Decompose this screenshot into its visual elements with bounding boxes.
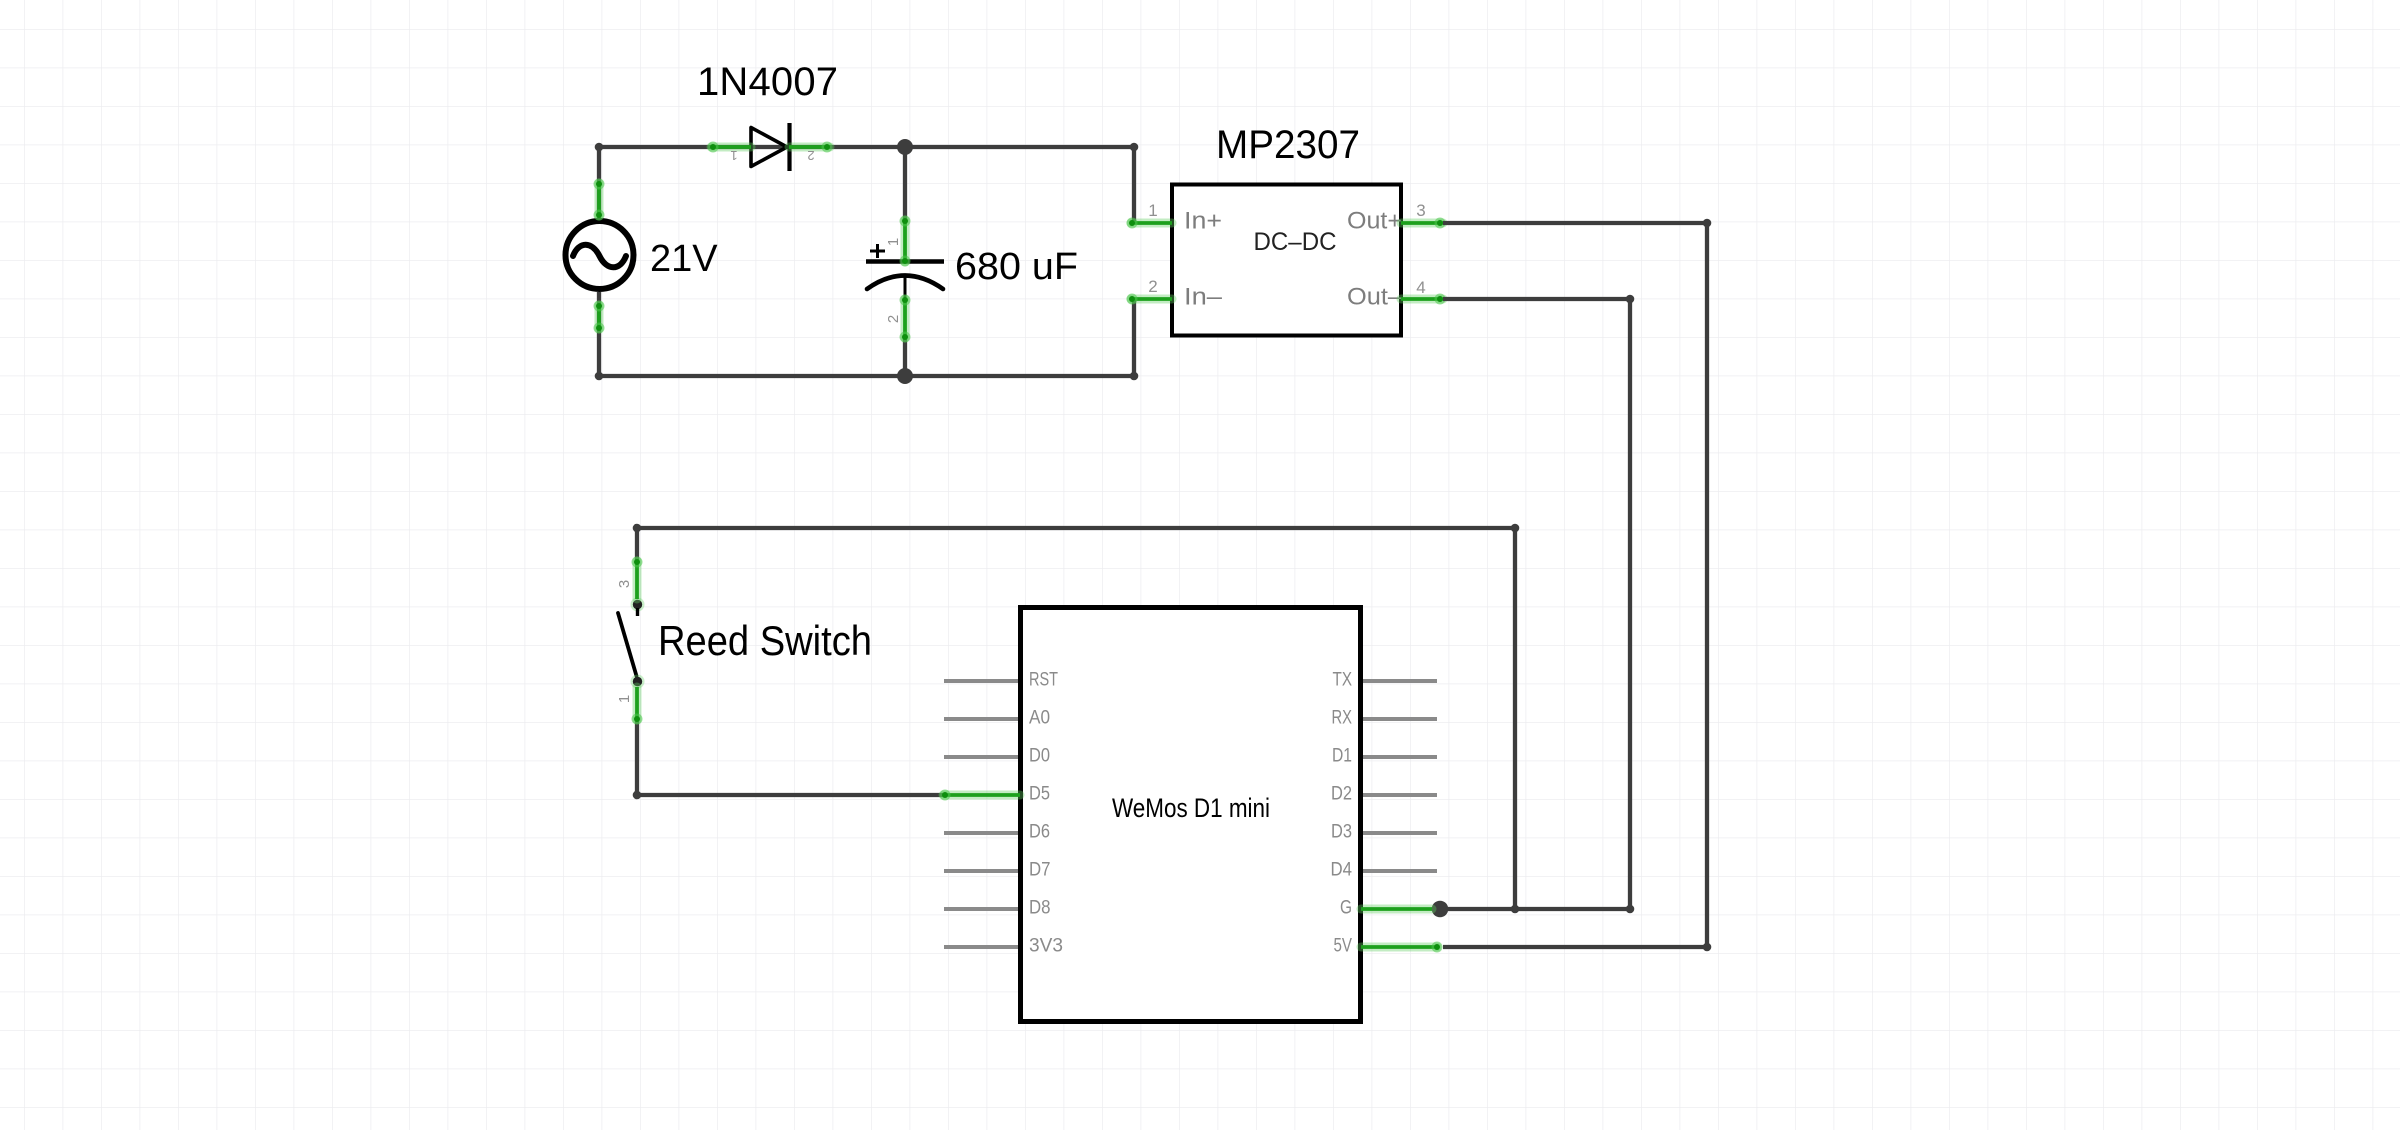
capacitor C1 (polarized 680 uF) [866, 244, 944, 299]
pin A0 stub [944, 717, 1018, 721]
pin 5V stub (green, connected) [1361, 942, 1443, 953]
pin D4 stub [1363, 869, 1437, 873]
pin label A0 [1029, 707, 1050, 729]
pin label Out+ [1347, 208, 1402, 235]
wire source bottom vertical [595, 292, 604, 380]
wire capacitor bottom vertical [903, 336, 907, 376]
wire capacitor top vertical [903, 147, 907, 222]
pin RX stub [1363, 717, 1437, 721]
pin D8 stub [944, 907, 1018, 911]
pin TX stub [1363, 679, 1437, 683]
svg-text:In+: In+ [1184, 208, 1222, 235]
pin label 3V3 [1029, 935, 1063, 957]
pin number 2 of C1 [885, 315, 902, 323]
wire from Out+ right then down to 5V [1443, 219, 1711, 952]
pin label D3 [1331, 821, 1352, 843]
pin label D4 [1331, 859, 1353, 881]
svg-text:MP2307: MP2307 [1216, 123, 1360, 167]
svg-text:1: 1 [885, 238, 902, 246]
pin 1 of D1 (anode, green) [708, 142, 752, 153]
part label Reed Switch [658, 617, 872, 664]
wire top rail horizontal [599, 145, 1134, 149]
pin label D6 [1029, 821, 1050, 843]
pin label D2 [1331, 783, 1352, 805]
svg-text:Out–: Out– [1347, 284, 1403, 311]
dc-dc module U1 MP2307 box [1172, 185, 1401, 336]
pin label RX [1332, 707, 1353, 729]
part label 1N4007 [697, 60, 838, 104]
svg-text:1: 1 [616, 695, 633, 703]
pin label RST [1029, 669, 1058, 691]
pin 1 In+ stub (green) [1127, 218, 1173, 229]
svg-text:G: G [1340, 897, 1352, 919]
wire from Out- right then down to G [1443, 295, 1634, 914]
svg-text:TX: TX [1333, 669, 1353, 691]
pin label D0 [1029, 745, 1050, 767]
svg-text:4: 4 [1416, 278, 1425, 297]
pin label In- [1184, 284, 1223, 311]
svg-text:5V: 5V [1334, 935, 1353, 957]
svg-text:3: 3 [1416, 201, 1425, 220]
svg-text:In–: In– [1184, 284, 1223, 311]
pin label D5 [1029, 783, 1050, 805]
pin number 2 of U1 [1148, 277, 1157, 296]
pin label 5V [1334, 935, 1353, 957]
pin 2 In- stub (green) [1127, 294, 1173, 305]
pin label Out- [1347, 284, 1403, 311]
svg-text:RX: RX [1332, 707, 1353, 729]
svg-text:Out+: Out+ [1347, 208, 1402, 235]
node junction at G (1440,909) [1432, 901, 1449, 918]
pin number 2 of D1 [807, 148, 814, 163]
wire top-left vertical from source to top rail [595, 143, 604, 219]
svg-text:D3: D3 [1331, 821, 1352, 843]
pin number 1 of D1 [730, 148, 737, 163]
pin number 1 of C1 [885, 238, 902, 246]
pin 1 of S1 (green) [632, 687, 643, 725]
pin label G [1340, 897, 1352, 919]
pin RST stub [944, 679, 1018, 683]
svg-text:1N4007: 1N4007 [697, 60, 838, 104]
value label 680 uF [955, 246, 1078, 288]
pin 1 of C1 (green) [900, 216, 911, 267]
pin D2 stub [1363, 793, 1437, 797]
wire right vertical up to In- [1130, 299, 1139, 380]
svg-text:D7: D7 [1029, 859, 1051, 881]
wire reed switch bottom to D5 [633, 720, 943, 799]
svg-text:DC–DC: DC–DC [1254, 228, 1337, 256]
svg-text:3: 3 [616, 580, 633, 588]
svg-text:RST: RST [1029, 669, 1058, 691]
pin 4 Out- stub (green) [1401, 294, 1446, 305]
pin number 4 of U1 [1416, 278, 1425, 297]
reed switch S1 [618, 598, 645, 689]
svg-text:D0: D0 [1029, 745, 1050, 767]
svg-text:D1: D1 [1332, 745, 1352, 767]
pin 2 of D1 (cathode, green) [789, 142, 833, 153]
pin D5 stub (green, connected) [940, 790, 1021, 801]
pin 1 of V1 (bottom, green) [594, 301, 605, 334]
pin 2 of C1 (green) [900, 295, 911, 343]
svg-text:1: 1 [730, 148, 737, 163]
svg-text:Reed Switch: Reed Switch [658, 617, 872, 664]
svg-text:A0: A0 [1029, 707, 1050, 729]
svg-text:D6: D6 [1029, 821, 1050, 843]
microcontroller U2 WeMos D1 mini box [1021, 608, 1361, 1022]
pin number 1 of U1 [1148, 201, 1157, 220]
pin D3 stub [1363, 831, 1437, 835]
pin D6 stub [944, 831, 1018, 835]
pin label TX [1333, 669, 1353, 691]
ac source V1 [566, 221, 634, 289]
pin 3 Out+ stub (green) [1401, 218, 1446, 229]
svg-text:3V3: 3V3 [1029, 935, 1063, 957]
wire bottom rail horizontal [599, 374, 1134, 378]
svg-text:WeMos D1 mini: WeMos D1 mini [1112, 793, 1270, 823]
part label MP2307 [1216, 123, 1360, 167]
pin 3 of S1 (green) [632, 557, 643, 600]
svg-text:2: 2 [885, 315, 902, 323]
svg-text:2: 2 [1148, 277, 1157, 296]
wire right vertical down to In+ [1130, 143, 1139, 221]
wire reed switch top loop [633, 524, 1520, 914]
pin number 1 of S1 [616, 695, 633, 703]
pin D7 stub [944, 869, 1018, 873]
pin 2 of V1 (top, green) [594, 179, 605, 221]
svg-text:D8: D8 [1029, 897, 1051, 919]
pin label D1 [1332, 745, 1352, 767]
svg-text:D4: D4 [1331, 859, 1353, 881]
pin label D8 [1029, 897, 1051, 919]
node junction bottom (905,376) [897, 368, 913, 384]
pin label In+ [1184, 208, 1222, 235]
svg-text:D5: D5 [1029, 783, 1050, 805]
svg-text:680 uF: 680 uF [955, 246, 1078, 288]
pin number 3 of S1 [616, 580, 633, 588]
svg-text:2: 2 [807, 148, 814, 163]
svg-text:21V: 21V [650, 238, 718, 280]
svg-text:D2: D2 [1331, 783, 1352, 805]
pin 3V3 stub [944, 945, 1018, 949]
pin number 3 of U1 [1416, 201, 1425, 220]
pin D0 stub [944, 755, 1018, 759]
value label 21V [650, 238, 718, 280]
svg-text:1: 1 [1148, 201, 1157, 220]
diode D1 [751, 123, 790, 171]
pin label D7 [1029, 859, 1051, 881]
node junction top (905,147) [897, 139, 913, 155]
pin G stub (green, connected) [1361, 905, 1432, 914]
pin D1 stub [1363, 755, 1437, 759]
